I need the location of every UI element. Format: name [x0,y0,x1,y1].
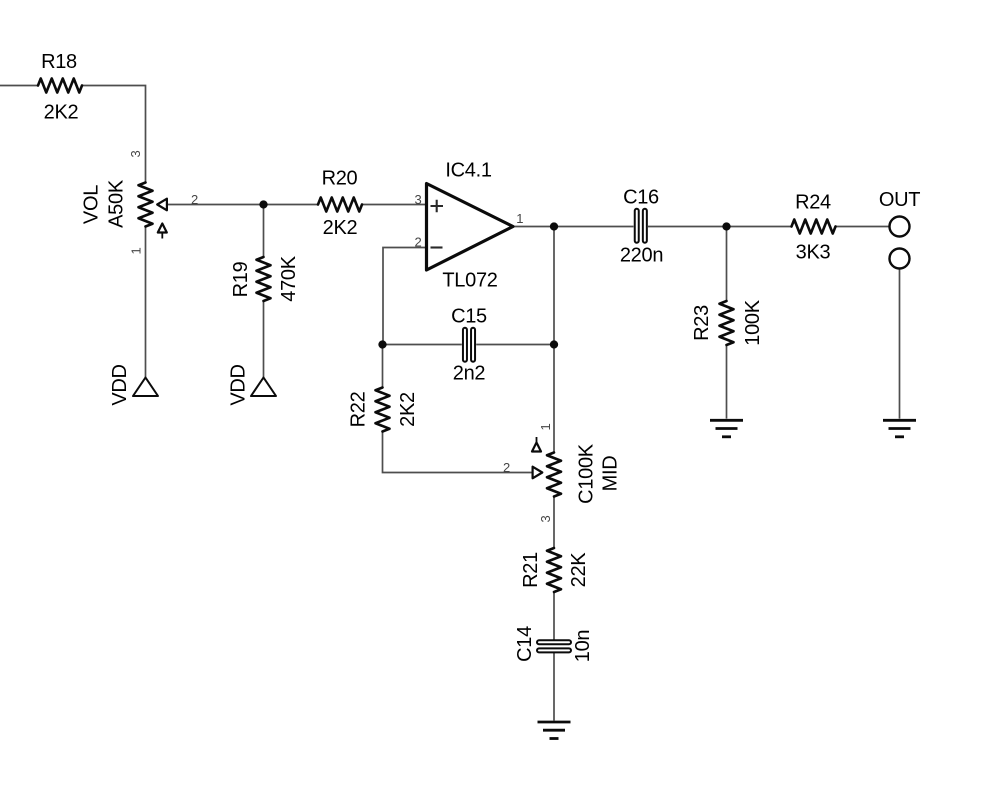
svg-text:2K2: 2K2 [397,392,419,427]
svg-text:C16: C16 [623,187,659,209]
svg-text:VDD: VDD [109,364,131,405]
svg-text:MID: MID [600,456,622,492]
svg-text:2n2: 2n2 [453,363,486,385]
svg-text:R18: R18 [41,51,77,73]
svg-text:1: 1 [538,423,553,430]
svg-text:1: 1 [129,247,144,254]
svg-text:470K: 470K [278,255,300,301]
svg-text:2: 2 [415,235,422,250]
svg-text:OUT: OUT [879,189,920,211]
svg-text:3: 3 [128,150,143,157]
svg-text:VDD: VDD [228,364,250,405]
svg-text:2K2: 2K2 [44,102,79,124]
svg-text:R23: R23 [691,305,713,341]
svg-text:2K2: 2K2 [323,217,358,239]
svg-text:3: 3 [538,515,553,522]
svg-text:3K3: 3K3 [796,242,831,264]
svg-text:A50K: A50K [106,179,128,228]
svg-text:2: 2 [191,192,198,207]
svg-text:R21: R21 [520,552,542,588]
svg-text:C100K: C100K [576,443,598,504]
svg-text:C15: C15 [451,306,487,328]
svg-text:IC4.1: IC4.1 [445,160,491,182]
svg-text:2: 2 [503,460,510,475]
svg-text:R24: R24 [795,192,831,214]
svg-text:10n: 10n [572,630,594,662]
svg-text:TL072: TL072 [442,270,497,292]
svg-text:R22: R22 [348,391,370,427]
svg-text:100K: 100K [742,299,764,345]
svg-text:R19: R19 [230,261,252,297]
svg-text:22K: 22K [568,552,590,588]
svg-text:3: 3 [415,192,422,207]
svg-text:1: 1 [516,211,523,226]
svg-text:R20: R20 [322,168,358,190]
svg-text:C14: C14 [514,626,536,662]
svg-text:VOL: VOL [81,185,103,224]
svg-text:220n: 220n [620,245,663,267]
